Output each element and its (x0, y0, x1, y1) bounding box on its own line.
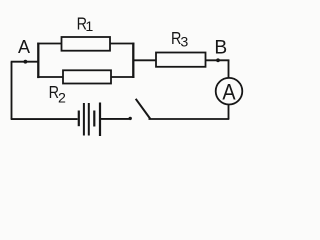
left junction bar (37, 43, 39, 79)
battery cell plate 4 (short) (93, 111, 95, 127)
wire: node B horizontal (R3 to right corner) (206, 59, 230, 61)
battery cell plate 1 (short) (78, 111, 80, 127)
wire: battery to switch (101, 118, 129, 120)
battery cell plate 3 (long) (88, 103, 90, 136)
svg-text:1: 1 (85, 19, 93, 35)
resistor R3 box (156, 53, 206, 67)
wire: lower rail left (bar to R2) (37, 76, 63, 78)
svg-text:B: B (214, 37, 227, 58)
wire: right vertical below ammeter (228, 104, 230, 119)
switch contact dot (129, 117, 132, 120)
wire: left vertical side (11, 62, 13, 119)
svg-text:3: 3 (180, 34, 188, 50)
wire: parallel output to R3 (133, 59, 156, 61)
svg-text:A: A (222, 79, 235, 104)
node B junction dot (216, 58, 220, 62)
wire: bottom rail right (149, 118, 230, 120)
right junction bar (132, 43, 134, 78)
resistor R1 box (62, 37, 111, 51)
wire: top rail left (bar to R1) (37, 43, 61, 45)
wire: right vertical above ammeter (228, 60, 230, 78)
wire: lower rail right (R2 to bar) (111, 76, 134, 78)
battery cell plate 2 (long) (83, 103, 85, 136)
svg-text:A: A (18, 37, 30, 57)
ammeter A body circle (216, 78, 243, 105)
wire: node A horizontal lead (11, 61, 39, 63)
wire: top rail right (R1 to bar) (110, 43, 134, 45)
battery cell plate 5 (long) (99, 103, 101, 137)
svg-text:2: 2 (58, 91, 66, 107)
switch blade (open) (136, 99, 151, 119)
resistor R2 box (63, 70, 111, 83)
wire: bottom rail left (to battery) (11, 118, 78, 120)
node A junction dot (24, 60, 28, 64)
